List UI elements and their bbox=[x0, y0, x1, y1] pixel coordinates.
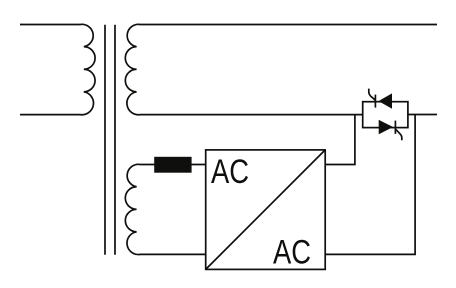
svg-text:AC: AC bbox=[211, 153, 249, 191]
svg-text:AC: AC bbox=[273, 234, 311, 272]
